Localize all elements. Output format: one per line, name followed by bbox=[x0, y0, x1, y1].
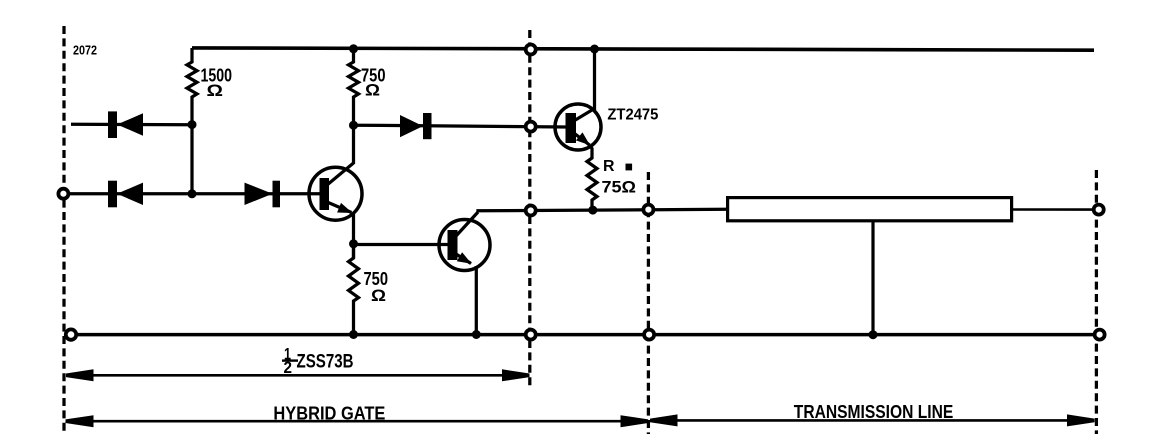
svg-text:HYBRID GATE: HYBRID GATE bbox=[273, 403, 385, 423]
wire: Q1 emitter down to lower node bbox=[352, 213, 355, 259]
junction dot: 1500 ohm to input line 1 bbox=[188, 120, 197, 129]
svg-text:Ω: Ω bbox=[371, 287, 386, 305]
dimension arrow: half ZSS73B span bbox=[66, 369, 530, 381]
junction dot: R bottom at output line bbox=[588, 206, 597, 215]
junction dot: Q1 emitter / 750 lower / Q2 base node bbox=[349, 239, 358, 248]
wire: input line 1 (upper) bbox=[71, 123, 192, 127]
dashed boundary line 1 (input plane) bbox=[62, 26, 65, 434]
svg-text:Ω: Ω bbox=[207, 82, 224, 100]
node: gate output at base line (open circle) bbox=[526, 122, 536, 132]
wire: upper diode line to gate output circle bbox=[354, 125, 525, 126]
resistor 1500 ohm (with leads from top rail) bbox=[187, 48, 197, 125]
svg-text:2072: 2072 bbox=[73, 43, 97, 58]
junction dot: 750 lower at ground rail bbox=[349, 330, 358, 339]
diode input lower (pointing left) bbox=[108, 181, 143, 208]
wire: Q1 collector up to top rail (shared with 750 upper node) bbox=[352, 125, 355, 164]
node: gate output on signal line (open circle) bbox=[526, 206, 536, 216]
dashed boundary line 3 (line input plane) bbox=[647, 172, 650, 434]
wire: input line 2 (lower, to Q1 base) bbox=[70, 192, 323, 195]
diode input upper (pointing left) bbox=[108, 111, 143, 138]
wire: transmission line to output terminal bbox=[1012, 208, 1093, 211]
svg-text:2: 2 bbox=[284, 358, 293, 377]
junction dot: top rail at 750 upper bbox=[349, 44, 358, 53]
diode series to Q1 base (pointing right) bbox=[245, 181, 281, 208]
wire: ZT2475 collector to top rail bbox=[593, 49, 596, 110]
wire: ZT2475 base lead from gate output circle bbox=[537, 125, 567, 128]
resistor 750 ohm lower (Q1 emitter to ground) bbox=[349, 244, 359, 335]
wire: bottom ground rail bbox=[71, 333, 1094, 337]
node: gate output at top rail (open circle) bbox=[526, 45, 536, 55]
wire: transmission line center tap to ground bbox=[871, 221, 874, 335]
svg-text:TRANSMISSION LINE: TRANSMISSION LINE bbox=[794, 402, 954, 422]
node: output terminal on signal line (open circle) bbox=[1094, 205, 1104, 215]
transistor ZT2475 (emitter follower) bbox=[555, 104, 601, 150]
wire: vertical between input line 1 and input line 2 bbox=[190, 125, 193, 194]
node: line input on ground rail (open circle) bbox=[644, 330, 654, 340]
resistor R = 75 ohm (ZT2475 emitter) bbox=[587, 145, 597, 210]
node: input ground terminal (open circle) bbox=[66, 329, 76, 339]
junction dot: center tap at ground rail bbox=[869, 330, 878, 339]
svg-text:ZT2475: ZT2475 bbox=[607, 106, 658, 123]
node: gate output on ground rail (open circle) bbox=[526, 330, 536, 340]
diode to ZT2475 base (pointing right) bbox=[400, 113, 432, 139]
svg-text:ZSS73B: ZSS73B bbox=[297, 350, 354, 372]
node: input terminal (open circle) bbox=[58, 189, 68, 199]
wire: top supply rail bbox=[192, 48, 1094, 50]
transistor Q1 (input NPN) bbox=[309, 163, 362, 220]
dimension arrow: transmission line span bbox=[650, 414, 1095, 426]
junction dot: ZT2475 collector at top rail bbox=[590, 45, 599, 54]
junction dot: 750 upper bottom node bbox=[349, 121, 358, 130]
svg-text:Ω: Ω bbox=[365, 82, 380, 100]
wire: Q2 emitter to ground rail bbox=[475, 266, 478, 335]
svg-text:R: R bbox=[603, 158, 615, 175]
node: line input on signal line (open circle) bbox=[643, 205, 653, 215]
transmission line body (rectangle) bbox=[728, 198, 1012, 221]
junction dot: Q2 emitter at ground rail bbox=[472, 330, 481, 339]
svg-text:750: 750 bbox=[364, 268, 389, 289]
svg-text:75Ω: 75Ω bbox=[602, 177, 637, 196]
label equals mark (square) bbox=[626, 164, 633, 171]
label 1/2 fraction bbox=[282, 345, 298, 378]
dashed boundary line 4 (line output plane) bbox=[1095, 170, 1098, 434]
transistor Q2 (output NPN of gate) bbox=[439, 212, 490, 271]
wire: node to Q2 base bbox=[354, 243, 451, 246]
dimension arrow: hybrid gate span bbox=[66, 415, 649, 427]
node: output terminal on ground rail (open circle) bbox=[1095, 330, 1105, 340]
resistor 750 ohm upper (with leads from top rail) bbox=[349, 49, 359, 125]
wire: gate output line (Q2 collector to transmission line) bbox=[478, 209, 728, 212]
dashed boundary line 2 (gate output plane) bbox=[528, 30, 531, 388]
junction dot: vertical joins input line 2 bbox=[188, 189, 197, 198]
